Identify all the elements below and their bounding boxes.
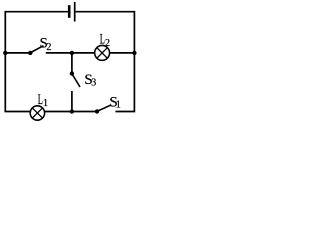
node: junction dot left edge middle: [3, 51, 7, 55]
wire right loop: top-right segment, right edge, bottom-right segment: [76, 12, 135, 112]
switch S2 blade (open): [31, 46, 44, 53]
wire: S3 branch lower vertical: [71, 91, 73, 112]
svg-text:1: 1: [116, 100, 121, 111]
wire: bottom wire segment (L1 to S1): [45, 111, 98, 113]
svg-text:2: 2: [46, 42, 51, 53]
wire left loop: top-left segment, left edge, bottom-left segment: [5, 12, 68, 112]
battery cell: thick short negative plate: [68, 5, 71, 18]
lamp L1: [30, 106, 44, 120]
svg-text:2: 2: [105, 38, 110, 49]
switch S3 pivot dot: [70, 71, 74, 75]
wire: S3 branch upper vertical: [71, 53, 73, 74]
wire: middle wire left segment: [5, 52, 30, 54]
svg-text:1: 1: [43, 98, 48, 109]
lamp L2: [95, 45, 110, 60]
wire: middle wire centre segment (S2 to L2): [46, 52, 95, 54]
svg-text:3: 3: [91, 78, 96, 89]
battery cell: thin long positive plate: [74, 2, 76, 22]
node: junction dot S3 branch on middle wire: [70, 51, 74, 55]
switch S1 blade (open): [98, 105, 111, 111]
switch S3 blade (open): [72, 74, 80, 87]
switch S2 pivot dot: [28, 51, 32, 55]
node: junction dot right edge middle: [132, 51, 136, 55]
node: junction dot S3 branch on bottom wire: [70, 109, 74, 113]
wire: middle wire right segment (L2 to right edge): [110, 52, 135, 54]
switch S1 pivot dot: [95, 109, 99, 113]
